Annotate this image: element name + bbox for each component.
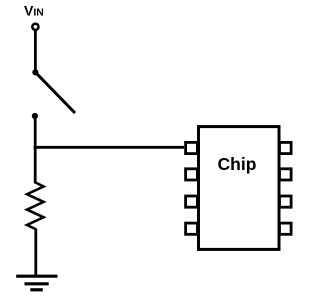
wire switch throw to node A	[34, 116, 37, 148]
ground	[16, 276, 57, 290]
wire resistor R1 to ground	[34, 229, 37, 277]
svg-text:Chip: Chip	[218, 154, 257, 174]
switch S1 blade	[35, 72, 75, 113]
chip U1 pin 6	[280, 196, 292, 207]
chip U1 pin 4	[186, 223, 198, 234]
switch S1 throw dot	[32, 113, 38, 119]
terminal VIN	[32, 24, 38, 30]
svg-text:VIN: VIN	[24, 3, 44, 19]
wire node A to resistor R1	[34, 146, 37, 184]
switch S1 pole dot	[32, 69, 38, 75]
chip U1 pin 3	[186, 196, 198, 207]
chip U1 pin 7	[280, 169, 292, 180]
chip U1 body	[199, 127, 280, 250]
wire VIN terminal to switch pole	[34, 31, 37, 73]
wire node A to chip pin 1	[34, 146, 184, 149]
chip U1 pin 1	[186, 142, 198, 153]
resistor R1	[27, 183, 44, 230]
chip U1 pin 5	[280, 223, 292, 234]
chip U1 pin 2	[186, 169, 198, 180]
chip U1 pin 8	[280, 142, 292, 153]
